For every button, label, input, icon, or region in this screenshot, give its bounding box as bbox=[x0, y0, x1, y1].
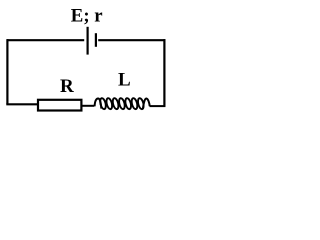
wire right vertical bbox=[163, 39, 165, 107]
wire coil to right bbox=[150, 105, 166, 107]
inductor L coil loops bbox=[99, 98, 144, 110]
inductor L entry arc bbox=[95, 98, 102, 108]
wire top-right bbox=[98, 39, 165, 41]
wire left vertical bbox=[6, 39, 8, 104]
svg-text:R: R bbox=[60, 76, 74, 97]
resistor R bbox=[38, 100, 81, 111]
svg-text:L: L bbox=[118, 69, 131, 90]
inductor L exit arc bbox=[143, 98, 150, 108]
wire top-left bbox=[7, 39, 84, 41]
battery E;r left plate bbox=[86, 27, 88, 55]
svg-text:E; r: E; r bbox=[71, 5, 103, 26]
wire bottom-left bbox=[6, 103, 38, 105]
battery E;r right plate bbox=[95, 33, 97, 47]
wire resistor to coil bbox=[81, 105, 94, 107]
